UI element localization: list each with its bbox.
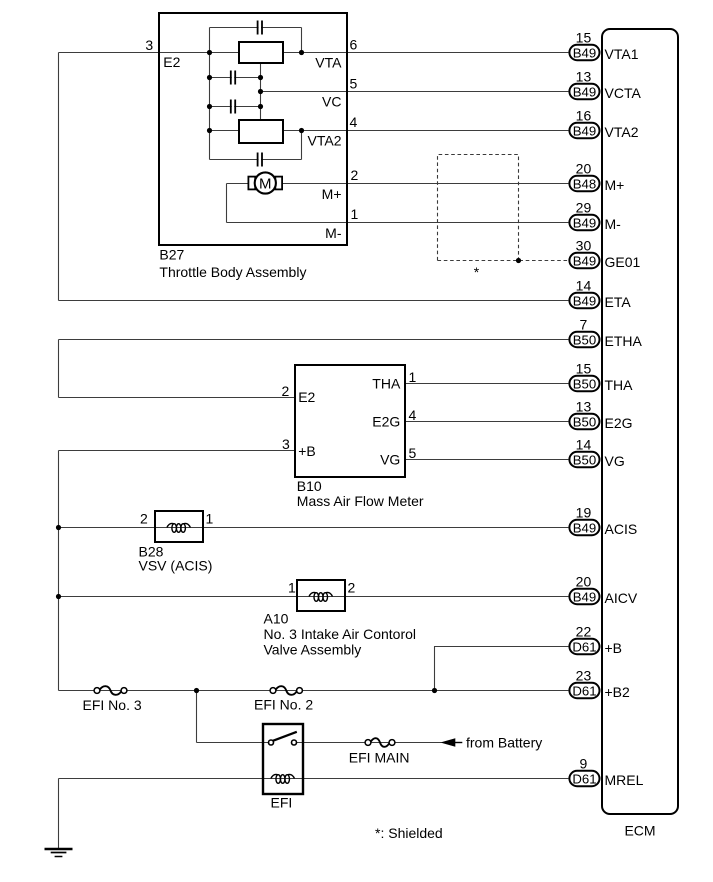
svg-text:B27: B27	[159, 247, 184, 263]
svg-text:*: Shielded: *: Shielded	[375, 825, 443, 841]
svg-text:9: 9	[580, 755, 588, 771]
svg-text:M-: M-	[325, 225, 342, 241]
inductor coil (A10)	[314, 593, 319, 602]
wire inner left vertical	[209, 28, 211, 160]
wire THA row	[405, 383, 568, 385]
svg-text:20: 20	[576, 160, 592, 176]
svg-text:E2G: E2G	[372, 414, 400, 430]
svg-text:1: 1	[351, 206, 359, 222]
junction dots inside B27	[207, 50, 212, 55]
node +B branch junction	[432, 688, 437, 693]
svg-text:ETHA: ETHA	[605, 333, 643, 349]
svg-text:13: 13	[576, 68, 592, 84]
svg-text:D61: D61	[572, 771, 596, 786]
inductor coil (VSV)	[172, 524, 177, 533]
svg-text:VG: VG	[605, 453, 625, 469]
motor M (throttle)	[248, 177, 255, 190]
wire +B branch to ECM	[434, 646, 568, 648]
fuse EFI MAIN	[365, 740, 371, 746]
svg-text:+B2: +B2	[605, 684, 631, 700]
connector oval B49 / pin 15 (VTA1)	[569, 45, 599, 60]
capacitor C2	[232, 76, 234, 79]
capacitor C4 (bottom)	[259, 158, 261, 161]
svg-text:2: 2	[140, 511, 148, 527]
wire inner right vertical bottom	[301, 131, 303, 160]
svg-text:VTA2: VTA2	[308, 133, 342, 149]
ground symbol	[45, 848, 73, 851]
fuse EFI No. 2	[270, 688, 276, 694]
svg-text:B50: B50	[573, 414, 596, 429]
wire ETHA-E2 rail	[58, 340, 60, 398]
connector oval D61 / pin 9 (MREL)	[569, 771, 599, 786]
connector oval B49 / pin 13 (VCTA)	[569, 84, 599, 99]
throttle body B27 box	[159, 13, 347, 245]
svg-text:B48: B48	[573, 176, 596, 191]
wire mid capacitor row A	[210, 77, 261, 79]
svg-text:B49: B49	[573, 215, 596, 230]
svg-text:23: 23	[576, 667, 592, 683]
svg-text:ETA: ETA	[605, 294, 632, 310]
wire inner right vertical top	[301, 28, 303, 53]
svg-text:EFI MAIN: EFI MAIN	[349, 749, 410, 765]
svg-text:M+: M+	[605, 177, 625, 193]
svg-text:D61: D61	[572, 639, 596, 654]
capacitor C1 (top)	[259, 26, 261, 29]
svg-text:B50: B50	[573, 376, 596, 391]
connector oval B49 / pin 14 (ETA)	[569, 293, 599, 308]
connector oval B49 / pin 20 (AICV)	[569, 589, 599, 604]
svg-text:14: 14	[576, 436, 592, 452]
connector oval B50 / pin 14 (VG)	[569, 452, 599, 467]
wire E2G row	[405, 421, 568, 423]
svg-text:E2G: E2G	[605, 415, 633, 431]
svg-text:VSV (ACIS): VSV (ACIS)	[139, 558, 213, 574]
connector oval D61 / pin 23 (+B2)	[569, 683, 599, 698]
wire ETA row	[59, 300, 569, 302]
svg-text:THA: THA	[372, 376, 401, 392]
svg-text:ECM: ECM	[624, 823, 655, 839]
svg-text:14: 14	[576, 277, 592, 293]
wire bottom capacitor row	[210, 159, 302, 161]
svg-text:+B: +B	[298, 443, 316, 459]
svg-text:M-: M-	[605, 216, 622, 232]
svg-text:No. 3 Intake Air Contorol: No. 3 Intake Air Contorol	[264, 626, 417, 642]
svg-text:30: 30	[576, 237, 592, 253]
svg-text:AICV: AICV	[605, 590, 638, 606]
connector oval B49 / pin 19 (ACIS)	[569, 520, 599, 535]
svg-text:Throttle Body Assembly: Throttle Body Assembly	[159, 264, 306, 280]
svg-text:16: 16	[576, 107, 592, 123]
wire mid capacitor row B	[210, 106, 261, 108]
connector oval D61 / pin 22 (+B)	[569, 639, 599, 654]
wire relay feed vertical	[196, 691, 198, 743]
mass air flow meter B10 box	[295, 365, 405, 477]
svg-text:VCTA: VCTA	[605, 85, 642, 101]
svg-text:4: 4	[350, 114, 358, 130]
connector oval B48 / pin 20 (M+)	[569, 176, 599, 191]
svg-text:B49: B49	[573, 84, 596, 99]
svg-text:3: 3	[145, 37, 153, 53]
svg-text:B49: B49	[573, 45, 596, 60]
svg-text:B49: B49	[573, 293, 596, 308]
wire +B row from MAF	[59, 450, 295, 452]
svg-text:15: 15	[576, 360, 592, 376]
connector oval B50 / pin 7 (ETHA)	[569, 332, 599, 347]
svg-text:EFI No. 2: EFI No. 2	[254, 696, 313, 712]
connector oval B50 / pin 15 (THA)	[569, 376, 599, 391]
svg-text:A10: A10	[264, 611, 289, 627]
svg-text:20: 20	[576, 573, 592, 589]
svg-text:B50: B50	[573, 452, 596, 467]
wire ACIS row	[59, 527, 569, 529]
svg-text:E2: E2	[298, 389, 315, 405]
svg-text:7: 7	[580, 316, 588, 332]
svg-text:B49: B49	[573, 589, 596, 604]
wire relay switch row left	[197, 742, 269, 744]
svg-text:VTA1: VTA1	[605, 46, 639, 62]
intake air control valve A10 box	[297, 580, 345, 611]
svg-text:5: 5	[350, 76, 358, 92]
svg-text:13: 13	[576, 398, 592, 414]
svg-text:VTA2: VTA2	[605, 124, 639, 140]
wire MREL row	[59, 778, 569, 780]
wire GE01 dashed (shield drain)	[438, 260, 569, 262]
wire relay switch row right to arrow	[296, 742, 441, 744]
wire VTA1 row (B27 pin6 to ECM, also pin3/E2 segment on left)	[59, 52, 239, 54]
svg-text:1: 1	[409, 369, 417, 385]
svg-text:Mass Air Flow Meter: Mass Air Flow Meter	[297, 493, 424, 509]
wire E2 row to MAF	[59, 397, 295, 399]
wire inner middle vertical	[260, 63, 262, 120]
svg-text:22: 22	[576, 623, 592, 639]
relay EFI box	[263, 724, 303, 794]
fuse EFI No. 3	[94, 688, 100, 694]
wire bottom power rail	[59, 690, 569, 692]
svg-text:19: 19	[576, 504, 592, 520]
node shield drain junction	[516, 258, 521, 263]
svg-text:THA: THA	[605, 377, 634, 393]
svg-text:M+: M+	[322, 186, 342, 202]
node AICV rail junction	[56, 594, 61, 599]
svg-text:1: 1	[206, 511, 214, 527]
svg-text:EFI: EFI	[271, 795, 293, 811]
connector oval B49 / pin 29 (M-)	[569, 215, 599, 230]
wire M- row	[227, 222, 569, 224]
svg-text:M: M	[259, 175, 272, 192]
connector oval B49 / pin 16 (VTA2)	[569, 123, 599, 138]
wire top capacitor row	[210, 27, 302, 29]
svg-text:6: 6	[350, 36, 358, 52]
capacitor C3	[232, 105, 234, 108]
wire ETHA row	[59, 339, 569, 341]
svg-text:B10: B10	[297, 478, 322, 494]
wire VTA2 row	[210, 130, 239, 132]
svg-text:29: 29	[576, 199, 592, 215]
svg-text:2: 2	[348, 580, 356, 596]
svg-text:B50: B50	[573, 332, 596, 347]
shield dashed box	[438, 155, 519, 261]
wire M+ row	[282, 183, 568, 185]
wire VC row (VC to VCTA)	[261, 91, 569, 93]
node relay feed junction	[194, 688, 199, 693]
svg-text:2: 2	[351, 167, 359, 183]
svg-text:GE01: GE01	[605, 254, 641, 270]
svg-text:E2: E2	[163, 54, 180, 70]
connector oval B49 / pin 30 (GE01)	[569, 253, 599, 268]
svg-text:5: 5	[409, 445, 417, 461]
relay switch contacts	[269, 740, 274, 745]
svg-text:2: 2	[282, 383, 290, 399]
svg-text:VG: VG	[380, 452, 400, 468]
svg-text:*: *	[474, 264, 480, 280]
svg-text:B49: B49	[573, 253, 596, 268]
svg-text:15: 15	[576, 29, 592, 45]
svg-text:3: 3	[282, 436, 290, 452]
svg-text:VTA: VTA	[315, 55, 342, 71]
svg-text:4: 4	[409, 407, 417, 423]
wire AICV row	[59, 596, 569, 598]
wire VG row	[405, 459, 568, 461]
ECM box	[602, 29, 678, 814]
relay coil (EFI)	[276, 775, 281, 784]
svg-text:VC: VC	[322, 94, 341, 110]
node ACIS rail junction	[56, 525, 61, 530]
svg-text:B49: B49	[573, 123, 596, 138]
svg-text:MREL: MREL	[605, 772, 644, 788]
svg-text:from Battery: from Battery	[466, 734, 542, 750]
svg-text:EFI No. 3: EFI No. 3	[83, 697, 142, 713]
wire ground rail	[58, 779, 60, 850]
wire +B left rail down	[58, 451, 60, 691]
wire +B branch vertical	[434, 647, 436, 691]
wire left rail pin3-to-ETA	[58, 53, 60, 301]
svg-text:B49: B49	[573, 520, 596, 535]
svg-text:1: 1	[288, 580, 296, 596]
svg-text:ACIS: ACIS	[605, 521, 638, 537]
arrow from battery	[440, 738, 455, 747]
resistor sensor element VTA2	[239, 120, 283, 143]
resistor sensor element VTA	[239, 42, 283, 63]
VSV B28 box	[155, 511, 203, 542]
svg-text:Valve Assembly: Valve Assembly	[264, 641, 362, 657]
connector oval B50 / pin 13 (E2G)	[569, 414, 599, 429]
svg-text:+B: +B	[605, 640, 623, 656]
svg-text:D61: D61	[572, 683, 596, 698]
